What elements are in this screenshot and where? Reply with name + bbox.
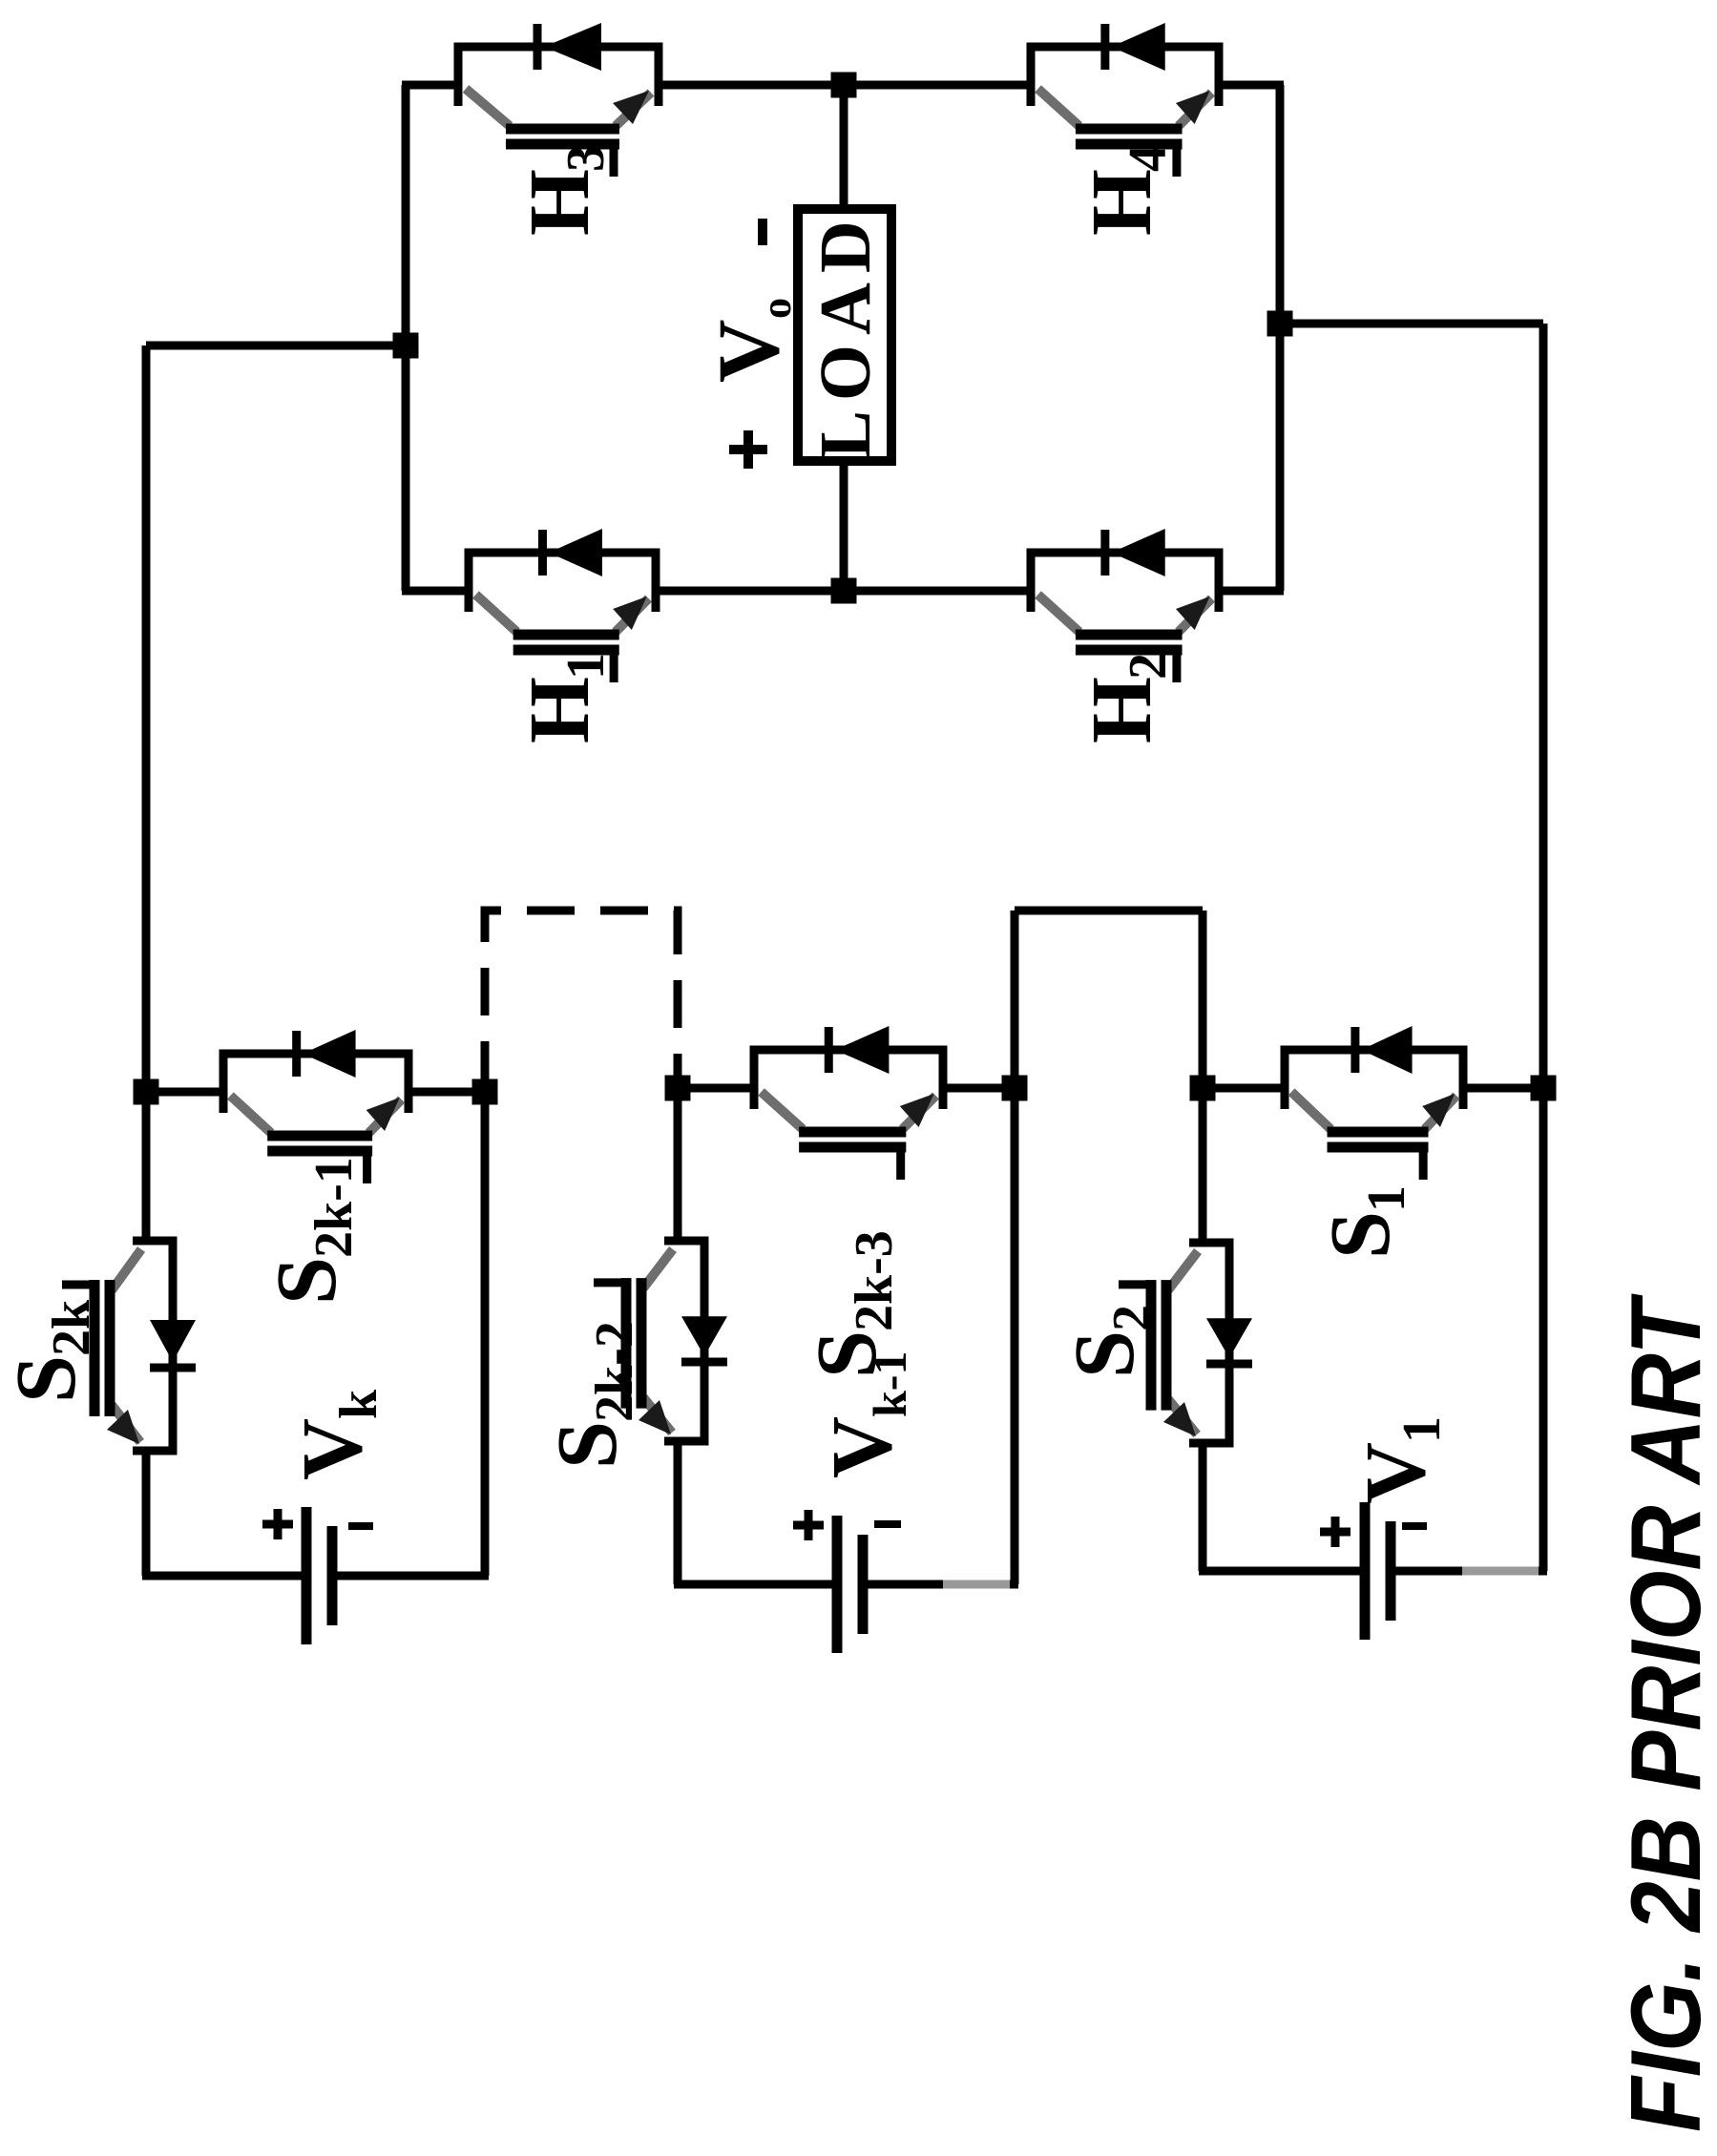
svg-text:S: S <box>0 1355 94 1403</box>
wire: riser from dc+ node to top rail <box>146 342 406 350</box>
junction J6 cell 1 bottom node <box>1531 1076 1557 1101</box>
svg-text:3: 3 <box>556 145 616 172</box>
wire: load right lead <box>840 85 848 209</box>
label H4 <box>1075 145 1178 236</box>
transistor H1 (IGBT with antiparallel diode) <box>469 529 656 682</box>
wire: cell k-1 left side lower gray segment <box>943 1580 1010 1589</box>
wire: cell k bottom side <box>481 1092 490 1576</box>
label +Vo- (output voltage) <box>700 219 800 469</box>
svg-text:H: H <box>1075 677 1169 743</box>
wire: string rail S2k-1 to J2 <box>408 1088 485 1097</box>
junction J4 cell k-1 bottom node <box>1002 1076 1028 1101</box>
label S2k-1 <box>260 1157 364 1305</box>
wire: dc+ bus from cell string to riser <box>142 345 151 1241</box>
wire: cell k-1 left side (above battery) <box>674 1580 832 1589</box>
wire: H-bridge left rail segments <box>402 587 469 596</box>
svg-text:4: 4 <box>1119 145 1178 172</box>
wire: H-bridge top rail <box>402 85 410 591</box>
svg-text:V: V <box>285 1418 380 1480</box>
svg-text:1: 1 <box>556 653 616 680</box>
wire: string rail S2k-3 to J4 <box>943 1084 1015 1093</box>
label + terminal of V1 <box>1320 1517 1351 1547</box>
label H3 <box>513 145 616 236</box>
svg-text:S: S <box>1057 1330 1152 1378</box>
wire: load left lead <box>840 461 848 591</box>
label - terminal of Vk <box>348 1522 373 1530</box>
wire: cell 1 top side (right part) <box>1199 1088 1207 1243</box>
transistor S2k-2 (IGBT with antiparallel diode) <box>594 1241 727 1441</box>
label S1 <box>1313 1185 1416 1259</box>
svg-text:V: V <box>1349 1442 1443 1504</box>
transistor H4 (IGBT with antiparallel diode) <box>1031 23 1219 177</box>
wire: cell k left side (below battery) <box>336 1572 489 1580</box>
wire: H-bridge right rail segments <box>402 81 458 90</box>
svg-text:1: 1 <box>1392 1416 1452 1443</box>
wire: string rail J5 to S1 <box>1203 1084 1285 1093</box>
junction J3 cell k-1 top node <box>665 1076 691 1101</box>
label H1 <box>513 653 616 743</box>
svg-text:H: H <box>513 169 607 236</box>
junction top rail tap <box>393 333 419 359</box>
wire: cell 1 left side lower gray segment <box>1462 1567 1539 1576</box>
transistor S2k-3 (IGBT with antiparallel diode) <box>754 1026 943 1180</box>
transistor H3 (IGBT with antiparallel diode) <box>458 23 659 177</box>
svg-text:LOAD: LOAD <box>806 211 886 459</box>
transistor S2 (IGBT with antiparallel diode) <box>1119 1243 1252 1443</box>
wire: jog down from cell k-1 bottom to cell 1 top <box>1015 907 1203 915</box>
load (LOAD box) <box>798 209 891 461</box>
wire: cell 1 left side (above battery) <box>1199 1567 1360 1576</box>
wire: string rail J1 to S2k-1 <box>146 1088 223 1097</box>
label Vk <box>285 1389 388 1480</box>
svg-text:2k-3: 2k-3 <box>845 1230 904 1331</box>
battery Vk-1 <box>837 1516 863 1653</box>
wire: string rail S1 to J6 <box>1463 1084 1543 1093</box>
svg-text:V: V <box>815 1416 910 1478</box>
label H2 <box>1075 653 1178 743</box>
junction J2 cell k bottom node <box>472 1079 498 1105</box>
svg-text:FIG. 2B PRIOR ART: FIG. 2B PRIOR ART <box>1611 1293 1717 2132</box>
battery V1 <box>1365 1502 1391 1640</box>
junction J5 cell 1 top node <box>1190 1076 1216 1101</box>
wire: cell k left side (above battery) <box>142 1572 303 1580</box>
svg-text:2: 2 <box>1102 1305 1162 1331</box>
junction J1 string/dc+ node <box>134 1079 159 1105</box>
svg-text:1: 1 <box>1357 1185 1416 1212</box>
junction load left node <box>831 578 857 604</box>
svg-text:2k-2: 2k-2 <box>585 1321 644 1422</box>
wire: cell 1 top side (left part) <box>1199 1443 1207 1571</box>
wire: cell k-1 bottom side <box>1011 911 1019 1584</box>
wire: H-bridge bottom rail <box>1276 85 1285 591</box>
wire: dashed continuation bracket (omitted cells) <box>485 911 678 1089</box>
svg-text:o: o <box>753 298 800 319</box>
transistor S1 (IGBT with antiparallel diode) <box>1285 1026 1463 1180</box>
svg-text:2k-1: 2k-1 <box>304 1157 364 1258</box>
junction bottom rail tap <box>1267 311 1293 337</box>
wire: cell k-1 top side (left part) <box>674 1441 682 1584</box>
label S2k-2 <box>540 1321 644 1469</box>
svg-text:2: 2 <box>1119 653 1178 680</box>
label + terminal of Vk-1 <box>793 1510 824 1540</box>
svg-text:S: S <box>540 1421 635 1469</box>
wire: cell k top side (left part) <box>142 1451 151 1576</box>
label S2 <box>1057 1305 1162 1378</box>
svg-text:k: k <box>329 1389 388 1419</box>
svg-text:S: S <box>260 1257 354 1305</box>
wire: jog into J5 <box>1199 911 1207 1088</box>
transistor S2k-1 (IGBT with antiparallel diode) <box>223 1030 408 1183</box>
wire: cell 1 left side (below battery) <box>1395 1567 1547 1576</box>
svg-text:H: H <box>513 677 607 743</box>
label + terminal of Vk <box>262 1509 293 1539</box>
wire: cell k-1 top side (right part) <box>674 1088 682 1241</box>
svg-text:H: H <box>1075 169 1169 236</box>
wire: riser from bottom rail down to return bus <box>1280 320 1543 328</box>
label S2k <box>0 1299 101 1403</box>
wire: cell k-1 left side (below battery) <box>868 1580 1018 1589</box>
label S2k-3 <box>800 1230 904 1378</box>
label V1 <box>1349 1416 1452 1504</box>
transistor H2 (IGBT with antiparallel diode) <box>1031 529 1219 682</box>
transistor S2k (IGBT with antiparallel diode) <box>62 1241 196 1451</box>
battery Vk <box>306 1507 332 1644</box>
svg-text:V: V <box>700 320 797 383</box>
wire: dc- return bus <box>1539 324 1548 1571</box>
svg-text:S: S <box>800 1330 894 1378</box>
svg-text:S: S <box>1313 1211 1408 1259</box>
svg-text:2k: 2k <box>42 1299 101 1356</box>
junction load right node <box>831 73 857 98</box>
label - terminal of V1 <box>1402 1522 1427 1530</box>
wire: string rail J3 to S2k-3 <box>678 1084 754 1093</box>
label - terminal of Vk-1 <box>874 1520 901 1528</box>
label Vk-1 <box>815 1351 916 1478</box>
